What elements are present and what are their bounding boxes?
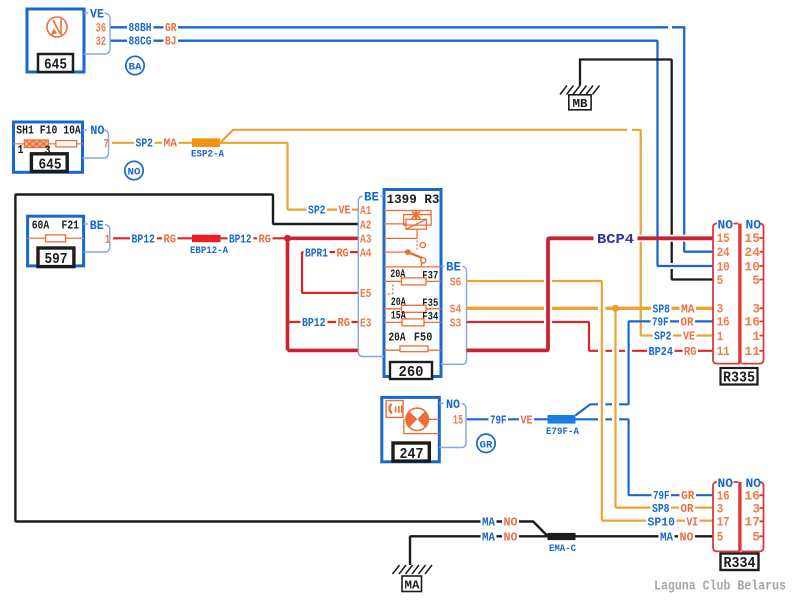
wire SP2 branch to relay A1 (amber) xyxy=(220,143,358,210)
splice EMA-C xyxy=(548,533,577,555)
wire SP2-MA (645 pin7 to splice ESP2-A, amber) xyxy=(112,142,192,144)
svg-text:11: 11 xyxy=(744,344,760,359)
fuse F37 20A xyxy=(384,269,441,285)
connector BE bracket right of 1399 xyxy=(441,261,467,365)
svg-text:ESP2-A: ESP2-A xyxy=(191,149,225,161)
junction BP12 xyxy=(284,235,291,242)
svg-text:VE: VE xyxy=(683,330,695,344)
label SP8-OR (R334 pin3) xyxy=(651,502,696,516)
connector R335 xyxy=(713,217,764,386)
wire BP12 thick to relay F50 input (red) xyxy=(288,349,359,353)
svg-text:79F: 79F xyxy=(490,413,507,427)
label MA-NO (upper frame wire) xyxy=(481,516,520,530)
svg-text:RG: RG xyxy=(684,345,697,359)
connector NO bracket on 645 pin7 xyxy=(83,124,109,158)
label BPR1-RG xyxy=(304,246,351,260)
node NO circle xyxy=(125,161,143,179)
fuse F21 xyxy=(46,235,66,242)
svg-text:EMA-C: EMA-C xyxy=(549,543,577,555)
label 645 xyxy=(31,154,67,172)
wire MA-NO (EMA-C to R334 pin5, black) xyxy=(576,535,713,537)
fuse line xyxy=(14,143,83,145)
svg-text:MA: MA xyxy=(482,516,496,530)
svg-text:15: 15 xyxy=(453,413,464,427)
svg-text:E5: E5 xyxy=(360,287,372,301)
splice E79F-A xyxy=(546,415,580,438)
svg-text:24: 24 xyxy=(717,245,730,260)
svg-text:R334: R334 xyxy=(724,555,756,572)
connector R334 xyxy=(713,476,764,572)
svg-text:1: 1 xyxy=(105,233,111,247)
svg-text:S6: S6 xyxy=(450,275,462,289)
wire S6 to R334 pin17 SP10-VI (amber) xyxy=(467,281,713,521)
svg-text:17: 17 xyxy=(744,515,760,530)
label 597 xyxy=(38,248,74,267)
svg-text:NO: NO xyxy=(504,516,518,530)
svg-text:F21: F21 xyxy=(62,218,80,232)
component 597 (fuse 60A F21) xyxy=(28,216,84,268)
svg-text:5: 5 xyxy=(752,530,760,545)
splice ESP2-A xyxy=(191,138,225,160)
fuse SH1 xyxy=(24,140,48,148)
svg-text:R335: R335 xyxy=(723,370,755,387)
label MA-NO (R334 pin5) xyxy=(659,531,696,545)
svg-text:NO: NO xyxy=(504,530,518,544)
R335 right bracket xyxy=(742,224,764,364)
wire SP2 branch to R335 pin1 (amber) xyxy=(220,130,713,336)
wire S3 to R335 pin11 BP24-RG (red) xyxy=(467,322,713,351)
component 645 (engine control unit, top-left) xyxy=(27,9,84,74)
svg-text:BE: BE xyxy=(90,219,104,233)
svg-text:VE: VE xyxy=(90,8,104,22)
svg-text:645: 645 xyxy=(39,157,62,174)
label BCP4 xyxy=(594,232,638,248)
svg-text:MA: MA xyxy=(482,530,496,544)
wire 79F-VE (247 pin15 to splice E79F-A, blue) xyxy=(467,418,548,420)
svg-text:SP10: SP10 xyxy=(648,516,676,530)
R335 right pins 15 24 10 5 3 16 1 11 xyxy=(744,231,760,359)
icon in 645 xyxy=(47,17,67,37)
svg-text:1: 1 xyxy=(717,329,724,344)
ground MB symbol xyxy=(560,86,600,111)
R334 right pins 16 3 17 5 xyxy=(744,489,760,545)
svg-text:OR: OR xyxy=(681,316,695,330)
wire BCP4 thick (relay F50 out to R335 pin15, red) xyxy=(467,238,713,350)
wire BP12-RG (to relay E3, red) xyxy=(288,321,359,323)
svg-text:RG: RG xyxy=(338,316,351,330)
label 79F-VE xyxy=(489,413,535,427)
svg-text:VE: VE xyxy=(339,204,351,218)
fuse F35 20A xyxy=(384,297,441,312)
fuse F34 15A xyxy=(384,310,441,326)
svg-text:BP12: BP12 xyxy=(302,316,326,330)
label MA-NO (ground wire) xyxy=(481,530,520,544)
R334 right pin ticks xyxy=(760,495,764,536)
svg-text:79F: 79F xyxy=(653,489,670,503)
svg-text:1: 1 xyxy=(18,144,24,157)
svg-text:5: 5 xyxy=(752,273,760,288)
R335 left pins 15 24 10 5 3 16 1 11 xyxy=(717,231,730,359)
svg-text:20A: 20A xyxy=(389,331,407,345)
svg-text:16: 16 xyxy=(717,315,730,330)
wire 88BH-GR (645 pin36 to R335 pin24, blue) xyxy=(111,27,713,251)
svg-text:GR: GR xyxy=(165,21,177,35)
wire frame/A2 net (black, big L) xyxy=(15,195,547,537)
svg-text:16: 16 xyxy=(744,315,760,330)
label R335 xyxy=(721,368,758,385)
R334 NO link xyxy=(734,481,739,483)
svg-text:E79F-A: E79F-A xyxy=(546,426,580,438)
wire SP8 branch to R334 pin3 (amber) xyxy=(616,308,713,507)
connector BE bracket left of 1399 xyxy=(358,190,384,356)
wire S4 to R335 pin3 SP8-MA (amber) xyxy=(467,307,713,310)
R334 left pins 16 3 17 5 xyxy=(717,489,730,545)
svg-text:S3: S3 xyxy=(450,316,462,330)
svg-text:VE: VE xyxy=(521,413,533,427)
label 88CG-BJ xyxy=(127,34,178,48)
svg-text:MA: MA xyxy=(164,137,178,151)
label 88BH-GR xyxy=(127,21,178,35)
splice EBP12-A xyxy=(190,235,229,257)
svg-text:SP2: SP2 xyxy=(136,137,154,151)
svg-text:NO: NO xyxy=(90,124,104,138)
svg-text:GR: GR xyxy=(480,440,494,452)
svg-text:Laguna Club Belarus: Laguna Club Belarus xyxy=(654,579,786,595)
svg-text:88CG: 88CG xyxy=(129,34,152,48)
label BP24-RG (R335 pin11) xyxy=(647,345,698,359)
label SP2-VE (R335 pin1) xyxy=(653,330,697,344)
svg-text:60A: 60A xyxy=(32,218,50,232)
svg-text:S4: S4 xyxy=(450,303,462,317)
svg-text:SP2: SP2 xyxy=(654,330,672,344)
junction SP8 xyxy=(612,305,619,312)
svg-text:SH1 F10 10A: SH1 F10 10A xyxy=(16,124,81,138)
wire BP12 thick feed to relay A3 (red) xyxy=(288,237,359,241)
svg-text:247: 247 xyxy=(400,446,424,463)
R335 right pin ticks xyxy=(760,238,764,351)
svg-text:260: 260 xyxy=(399,364,424,381)
svg-text:F50: F50 xyxy=(414,331,433,345)
label SP8-MA (R335 pin3) xyxy=(651,302,696,316)
svg-text:BP12: BP12 xyxy=(229,232,252,246)
svg-text:15: 15 xyxy=(717,231,730,246)
svg-text:GR: GR xyxy=(681,489,695,503)
svg-text:BCP4: BCP4 xyxy=(597,233,634,248)
svg-text:A2: A2 xyxy=(360,218,372,232)
relay R3 coil and contact xyxy=(384,210,441,267)
R334 center bar xyxy=(738,482,741,551)
fuse F50 20A xyxy=(384,331,441,352)
blower motor icon xyxy=(406,408,428,430)
ground MA symbol xyxy=(393,565,433,592)
component 247 (heater/blower unit) xyxy=(382,397,440,463)
node GR circle xyxy=(477,434,495,452)
label 260 xyxy=(390,362,432,381)
svg-text:SP2: SP2 xyxy=(308,204,326,218)
svg-text:RG: RG xyxy=(337,246,349,260)
svg-text:NO: NO xyxy=(718,217,734,232)
svg-text:A3: A3 xyxy=(360,233,372,247)
svg-text:A1: A1 xyxy=(360,204,372,218)
svg-text:NO: NO xyxy=(680,531,694,545)
wire BP12 thick vertical (red) xyxy=(286,238,290,350)
node BA xyxy=(126,56,144,74)
svg-text:RG: RG xyxy=(259,232,272,246)
svg-text:RG: RG xyxy=(164,232,177,246)
label BP12-RG (second) xyxy=(228,232,273,246)
wire 88CG-BJ (645 pin32 to R335 pin10, blue) xyxy=(111,41,713,266)
wire MA ground to splice EMA-C (black) xyxy=(410,536,548,565)
svg-text:5: 5 xyxy=(717,530,724,545)
svg-text:SP8: SP8 xyxy=(653,302,671,316)
label 79F-OR (R335 pin16) xyxy=(651,316,696,330)
svg-text:EBP12-A: EBP12-A xyxy=(190,245,229,257)
svg-text:MA: MA xyxy=(405,579,420,592)
svg-text:BJ: BJ xyxy=(165,34,177,48)
seat heater icon xyxy=(386,401,403,418)
wire 79F branch to R335 pin16 (blue) xyxy=(576,321,713,415)
label 79F-GR (R334 pin16) xyxy=(652,489,697,503)
svg-text:1: 1 xyxy=(752,329,760,344)
svg-text:597: 597 xyxy=(45,251,68,268)
wire BP12-RG (splice to junction, red) xyxy=(221,237,288,239)
relay E5 internal link xyxy=(384,285,393,294)
svg-text:MA: MA xyxy=(681,302,695,316)
wire BPR1-RG (relay A4 to E5, red) xyxy=(302,252,358,293)
svg-text:BP12: BP12 xyxy=(132,232,156,246)
svg-text:SP8: SP8 xyxy=(652,502,670,516)
svg-text:NO: NO xyxy=(128,167,141,179)
svg-text:5: 5 xyxy=(717,273,724,288)
wire BP12-RG (597 pin1 to splice EBP12-A, red) xyxy=(113,237,192,239)
svg-text:BP24: BP24 xyxy=(649,345,674,359)
label SP2-VE (relay A1) xyxy=(307,204,353,218)
relay/fuse unit 1399 R3 (box 260) xyxy=(384,190,441,377)
label BP12-RG (E3) xyxy=(301,316,352,330)
svg-text:BE: BE xyxy=(364,190,379,204)
svg-text:MB: MB xyxy=(573,98,588,111)
svg-text:36: 36 xyxy=(96,21,107,35)
component 645 (fuse holder SH1 F10 10A) xyxy=(14,122,83,174)
svg-text:79F: 79F xyxy=(652,316,669,330)
svg-text:32: 32 xyxy=(96,35,107,49)
svg-text:MA: MA xyxy=(660,531,674,545)
svg-text:OR: OR xyxy=(681,502,695,516)
label R334 xyxy=(721,554,759,571)
R335 center bar xyxy=(738,224,741,364)
svg-text:BPR1: BPR1 xyxy=(305,246,328,260)
connector VE bracket on 645 xyxy=(84,8,110,55)
R334 right bracket xyxy=(742,482,764,551)
wire 79F branch to R334 pin16 (blue) xyxy=(576,419,713,495)
svg-text:1399 R3: 1399 R3 xyxy=(387,192,440,207)
svg-text:15: 15 xyxy=(744,231,760,246)
connector NO bracket on 247 pin15 xyxy=(439,398,466,448)
label SP10-VI (R334 pin17) xyxy=(646,516,700,530)
svg-text:17: 17 xyxy=(717,515,730,530)
fuse F10 xyxy=(56,141,77,147)
svg-text:E3: E3 xyxy=(360,316,372,330)
svg-text:VI: VI xyxy=(687,516,699,530)
svg-text:BE: BE xyxy=(446,261,461,275)
svg-text:BA: BA xyxy=(129,62,143,74)
internal motor links xyxy=(404,419,440,433)
svg-text:88BH: 88BH xyxy=(129,21,152,35)
connector BE bracket on 597 pin1 xyxy=(84,219,111,252)
label BP12-RG xyxy=(130,232,178,246)
wire MB ground to R335 pin5 (black) xyxy=(580,60,713,280)
label 645 xyxy=(38,54,73,72)
svg-text:645: 645 xyxy=(44,57,67,74)
svg-text:NO: NO xyxy=(446,398,460,412)
label 247 xyxy=(393,443,429,461)
label SP2-MA xyxy=(134,137,179,151)
svg-text:NO: NO xyxy=(746,217,762,232)
R335 left bracket xyxy=(713,224,740,364)
svg-text:7: 7 xyxy=(104,137,110,151)
R335 NO link xyxy=(734,223,739,225)
svg-text:24: 24 xyxy=(744,245,760,260)
R334 left bracket xyxy=(713,482,740,551)
svg-text:11: 11 xyxy=(717,344,730,359)
svg-text:A4: A4 xyxy=(360,247,372,261)
